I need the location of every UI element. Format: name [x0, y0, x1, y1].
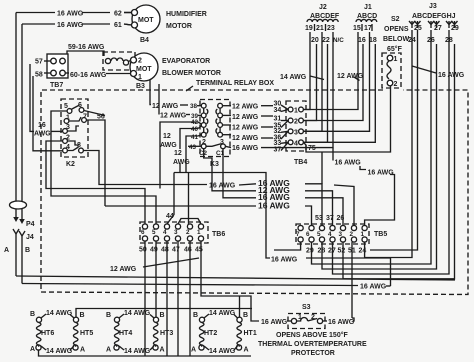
heater B run: [76, 309, 252, 318]
svg-text:1: 1: [361, 231, 365, 238]
svg-text:S2: S2: [391, 16, 400, 23]
svg-text:A: A: [4, 247, 9, 254]
svg-text:14 AWG: 14 AWG: [124, 310, 151, 317]
wire 56 16 AWG to TB5-6: [105, 205, 256, 207]
svg-text:EVAPORATOR: EVAPORATOR: [162, 58, 210, 65]
svg-text:OPENS ABOVE 150°F: OPENS ABOVE 150°F: [276, 331, 349, 339]
svg-text:2: 2: [394, 81, 398, 88]
svg-text:16 AWG: 16 AWG: [360, 284, 387, 291]
svg-text:62: 62: [114, 11, 122, 18]
svg-text:16 AWG: 16 AWG: [258, 192, 290, 202]
svg-text:16 AWG: 16 AWG: [438, 72, 465, 79]
TB7 terminal board: [47, 54, 68, 78]
svg-text:HT6: HT6: [41, 330, 54, 337]
svg-text:B: B: [193, 312, 198, 319]
svg-text:6: 6: [141, 229, 145, 236]
plug P4 arrows: [13, 217, 19, 222]
svg-text:48: 48: [161, 247, 169, 254]
wire 58: [44, 72, 51, 74]
svg-text:12 AWG: 12 AWG: [232, 135, 259, 142]
svg-text:14 AWG: 14 AWG: [209, 310, 236, 317]
svg-text:TB5: TB5: [374, 231, 387, 238]
svg-text:16 AWG: 16 AWG: [232, 145, 259, 152]
svg-text:HT4: HT4: [119, 330, 132, 337]
J1 pin wires: [304, 32, 359, 110]
svg-text:58: 58: [35, 72, 43, 79]
svg-text:75: 75: [308, 145, 316, 152]
svg-text:12: 12: [174, 150, 182, 157]
J3 pin forks: [409, 21, 458, 28]
svg-text:HT1: HT1: [244, 330, 257, 337]
svg-text:3: 3: [220, 139, 224, 146]
svg-text:HT5: HT5: [80, 330, 93, 337]
svg-text:MOT: MOT: [136, 66, 152, 73]
svg-text:16 AWG: 16 AWG: [368, 170, 395, 177]
svg-text:MOTOR: MOTOR: [166, 23, 192, 30]
svg-text:TERMINAL RELAY BOX: TERMINAL RELAY BOX: [196, 80, 274, 87]
svg-text:16: 16: [358, 37, 366, 44]
svg-text:1: 1: [298, 314, 302, 321]
svg-text:29: 29: [306, 248, 314, 255]
svg-text:60-16 AWG: 60-16 AWG: [70, 72, 107, 79]
relay K2: [61, 99, 88, 157]
heater HT6: [36, 314, 46, 350]
svg-text:43: 43: [189, 144, 197, 151]
svg-text:AWG: AWG: [173, 159, 190, 166]
svg-text:57: 57: [35, 59, 43, 66]
J2 pin wires: [303, 32, 310, 110]
svg-text:7: 7: [296, 231, 300, 238]
svg-text:P4: P4: [26, 221, 35, 228]
svg-text:A: A: [80, 347, 85, 354]
wire K3-C1 16 AWG to TB5-26: [223, 149, 256, 198]
svg-text:B: B: [243, 312, 248, 319]
svg-text:14 AWG: 14 AWG: [46, 348, 73, 355]
wire B left vertical: [21, 24, 23, 219]
svg-text:16: 16: [38, 122, 46, 129]
wire K3-C2 12 AWG to TB5-37: [204, 149, 256, 191]
svg-text:52: 52: [338, 248, 346, 255]
svg-text:47: 47: [172, 247, 180, 254]
svg-text:14 AWG: 14 AWG: [46, 310, 73, 317]
svg-text:BELOW: BELOW: [383, 36, 409, 43]
svg-text:B: B: [25, 247, 30, 254]
svg-text:3: 3: [294, 129, 298, 136]
svg-text:23: 23: [327, 25, 335, 32]
svg-text:B3: B3: [136, 83, 145, 90]
svg-text:MOT: MOT: [138, 17, 154, 24]
heater bus bottom: [39, 350, 252, 356]
terminal board TB5: [296, 224, 369, 244]
bus B horizontal: [22, 284, 358, 286]
svg-text:A: A: [106, 347, 111, 354]
svg-text:B4: B4: [140, 37, 149, 44]
svg-text:16 AWG: 16 AWG: [335, 160, 362, 167]
svg-text:19: 19: [305, 25, 313, 32]
svg-text:3: 3: [174, 229, 178, 236]
svg-text:B: B: [80, 312, 85, 319]
svg-text:41: 41: [191, 134, 199, 141]
svg-text:18: 18: [369, 37, 377, 44]
terminal board TB6: [140, 222, 208, 243]
evaporator coil box: [103, 52, 135, 70]
svg-text:1: 1: [394, 56, 398, 63]
svg-text:38: 38: [190, 103, 198, 110]
svg-text:A: A: [244, 347, 249, 354]
svg-text:12 AWG: 12 AWG: [232, 114, 259, 121]
svg-text:AWG: AWG: [160, 142, 177, 149]
svg-text:17: 17: [364, 25, 372, 32]
svg-text:65°F: 65°F: [387, 45, 403, 53]
svg-text:2: 2: [138, 58, 142, 65]
svg-text:59-16 AWG: 59-16 AWG: [68, 44, 105, 51]
svg-text:AWG: AWG: [34, 131, 51, 138]
svg-text:J4: J4: [26, 234, 34, 241]
svg-text:16 AWG: 16 AWG: [261, 319, 288, 326]
svg-text:J1: J1: [364, 4, 372, 11]
wire 45 to S3: [201, 241, 259, 321]
svg-text:1: 1: [294, 108, 298, 115]
svg-text:PROTECTOR: PROTECTOR: [291, 350, 335, 357]
wire K2-5 to TB6-5: [51, 111, 156, 224]
wire 53 vertical continuation: [321, 152, 323, 184]
svg-text:S3: S3: [302, 304, 311, 311]
svg-text:A: A: [160, 347, 165, 354]
svg-text:12 AWG: 12 AWG: [337, 73, 364, 80]
svg-text:TB7: TB7: [50, 82, 63, 89]
svg-text:46: 46: [184, 247, 192, 254]
wire A left vertical: [15, 13, 17, 218]
svg-text:12 AWG: 12 AWG: [110, 266, 137, 273]
svg-text:OPENS: OPENS: [384, 26, 409, 33]
cable clamp: [10, 201, 27, 209]
TB6 bridge 3 to 1: [178, 219, 201, 225]
svg-text:B: B: [106, 312, 111, 319]
svg-text:TB6: TB6: [212, 231, 225, 238]
svg-text:1: 1: [197, 229, 201, 236]
svg-text:61: 61: [114, 22, 122, 29]
svg-text:2: 2: [294, 119, 298, 126]
svg-text:49: 49: [150, 247, 158, 254]
svg-text:37: 37: [274, 147, 282, 154]
svg-text:HT3: HT3: [160, 330, 173, 337]
svg-text:3: 3: [339, 231, 343, 238]
svg-text:16 AWG: 16 AWG: [271, 257, 298, 264]
bus A horizontal: [16, 276, 455, 280]
svg-text:2: 2: [350, 231, 354, 238]
svg-text:1: 1: [138, 74, 142, 81]
svg-text:5: 5: [317, 231, 321, 238]
svg-text:K2: K2: [66, 161, 75, 168]
svg-text:ABCDEFGHJ: ABCDEFGHJ: [412, 13, 456, 20]
terminal board TB4: [286, 101, 306, 151]
svg-text:22: 22: [322, 37, 330, 44]
heater HT3: [150, 315, 159, 351]
svg-text:12: 12: [163, 133, 171, 140]
svg-text:J3: J3: [429, 3, 437, 10]
svg-text:4: 4: [328, 231, 332, 238]
16 AWG label below TB5: [274, 242, 301, 250]
svg-text:16 AWG: 16 AWG: [57, 22, 84, 29]
svg-text:34: 34: [274, 107, 282, 114]
svg-text:A: A: [30, 346, 35, 353]
wire TB5-51 down to S3: [351, 242, 353, 318]
humidifier motor B4: [132, 5, 160, 33]
heater HT2: [199, 314, 209, 350]
wire TB5-2 riser: [334, 185, 354, 225]
TB4 left stubs: [281, 105, 288, 151]
svg-text:B: B: [160, 312, 165, 319]
wire K2-8 16 AWG to TB5-53: [83, 151, 207, 185]
svg-text:TB4: TB4: [294, 159, 307, 166]
terminal relay box dashed border: [41, 90, 383, 292]
svg-text:50: 50: [139, 247, 147, 254]
svg-text:THERMAL OVERTEMPERATURE: THERMAL OVERTEMPERATURE: [258, 341, 367, 348]
heater HT1: [234, 296, 242, 350]
svg-text:J2: J2: [319, 4, 327, 11]
svg-text:21: 21: [316, 25, 324, 32]
svg-text:27: 27: [434, 25, 442, 32]
svg-text:14 AWG: 14 AWG: [280, 74, 307, 81]
svg-text:45: 45: [195, 247, 203, 254]
J3 wires to TB5: [365, 30, 412, 258]
heater HT4: [114, 314, 124, 350]
svg-text:12 AWG: 12 AWG: [160, 113, 187, 120]
svg-text:5: 5: [152, 229, 156, 236]
svg-text:B: B: [30, 311, 35, 318]
svg-text:4: 4: [163, 229, 167, 236]
jack J4 forks: [13, 229, 19, 234]
svg-text:31: 31: [274, 116, 282, 123]
svg-text:16 AWG: 16 AWG: [328, 319, 355, 326]
svg-text:BLOWER MOTOR: BLOWER MOTOR: [162, 70, 221, 77]
wire TB6-2 riser and 172 run to 16 AWG under TB5: [188, 173, 190, 224]
svg-text:A: A: [191, 347, 196, 354]
svg-text:12 AWG: 12 AWG: [232, 104, 259, 111]
svg-text:20: 20: [311, 37, 319, 44]
wire 57: [44, 60, 51, 62]
svg-text:12 AWG: 12 AWG: [152, 103, 179, 110]
TB6 down wires 50 49 48 47 46: [144, 241, 146, 356]
heater HT5: [70, 315, 79, 351]
svg-text:40: 40: [191, 126, 199, 133]
svg-text:14 AWG: 14 AWG: [124, 348, 151, 355]
svg-text:6: 6: [306, 231, 310, 238]
svg-text:4: 4: [294, 140, 298, 147]
svg-text:HT2: HT2: [204, 330, 217, 337]
evaporator blower motor B3: [130, 53, 158, 81]
svg-text:16 AWG: 16 AWG: [57, 11, 84, 18]
svg-text:2: 2: [202, 139, 206, 146]
svg-text:2: 2: [186, 229, 190, 236]
wire K2-2 to TB6-6: [46, 141, 145, 224]
svg-text:15: 15: [353, 25, 361, 32]
svg-text:29: 29: [451, 25, 459, 32]
relay K3: [200, 100, 230, 157]
svg-text:HUMIDIFIER: HUMIDIFIER: [166, 11, 207, 18]
svg-text:14 AWG: 14 AWG: [209, 348, 236, 355]
wire 16 AWG from K3/J2-23 down to TB5-1: [332, 148, 334, 161]
svg-text:N/C: N/C: [333, 37, 344, 44]
svg-text:12 AWG: 12 AWG: [232, 125, 259, 132]
